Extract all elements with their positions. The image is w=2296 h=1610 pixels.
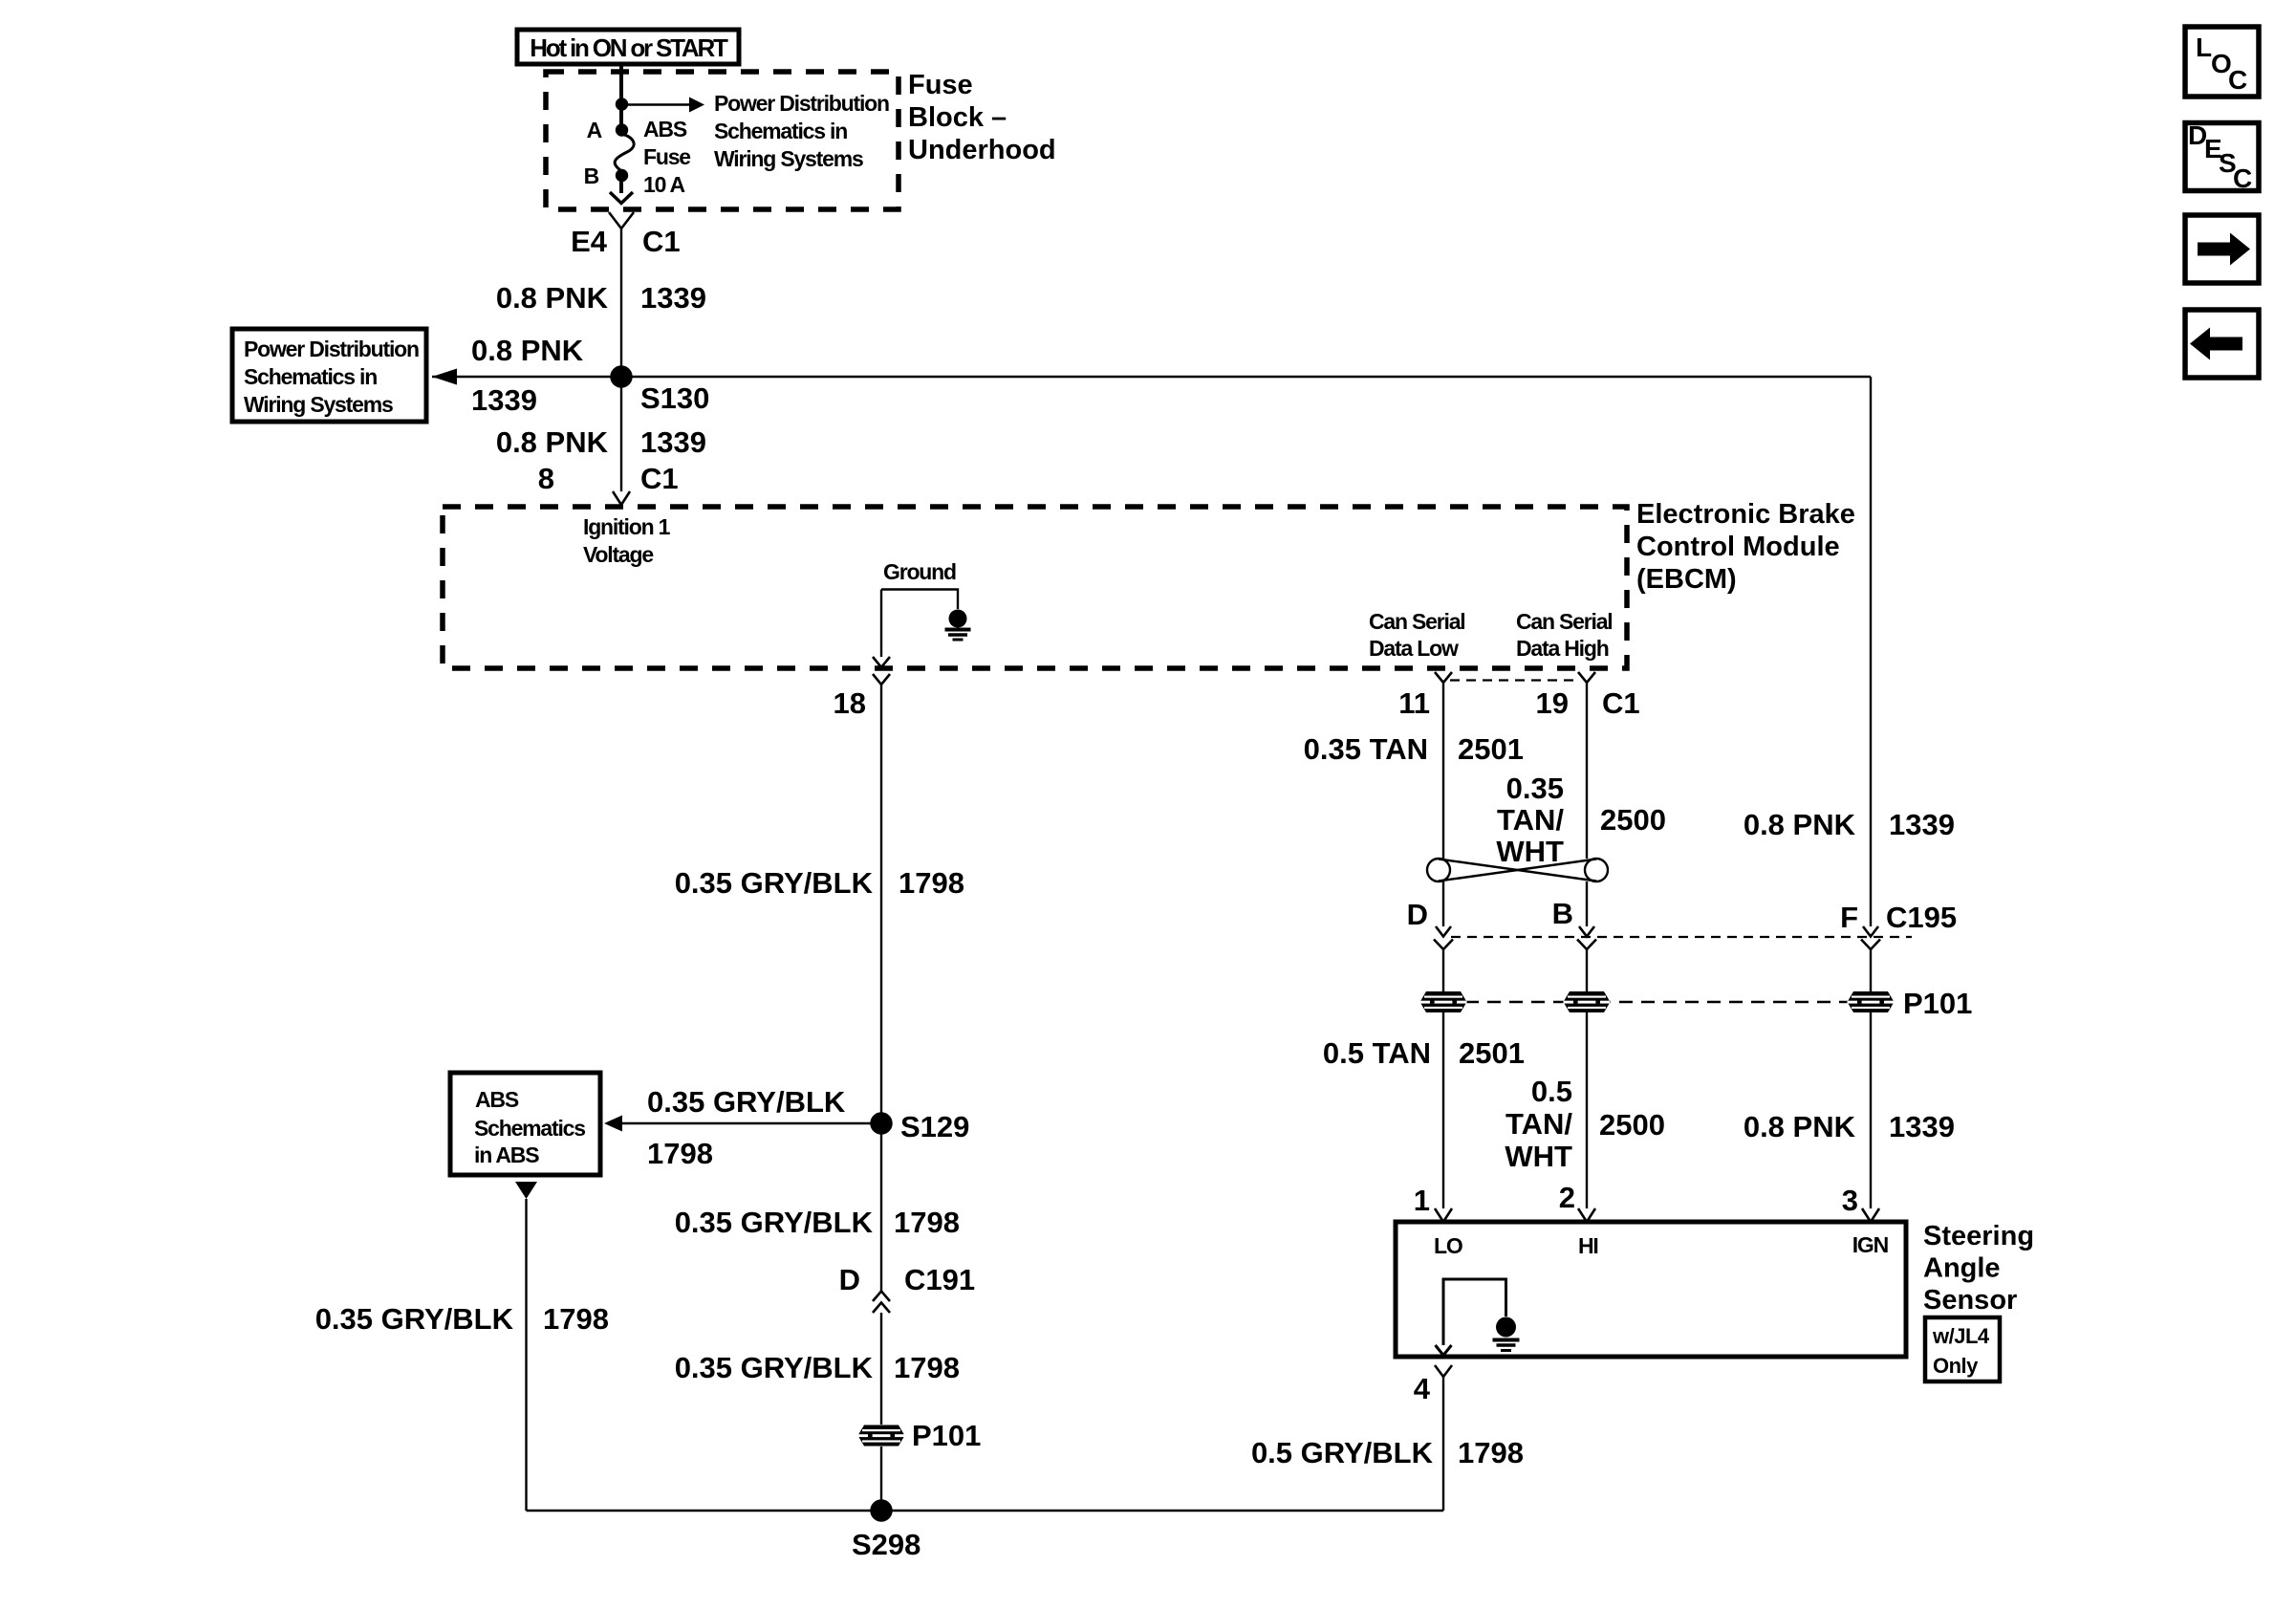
svg-text:0.8 PNK: 0.8 PNK [496,425,609,459]
svg-text:HI: HI [1578,1233,1598,1258]
P101 dashed line [1443,1001,1871,1003]
sensor internal ground symbol [1493,1317,1520,1351]
C195 chevron wire 2 [1577,940,1596,950]
connector chevron pin 8 [613,491,630,505]
wire: pin 18 down to S129 and C191 [880,685,882,1291]
svg-text:0.5 TAN: 0.5 TAN [1323,1036,1431,1070]
svg-text:Block –: Block – [908,102,1007,133]
connector C191 arrow (up) [873,1292,890,1302]
svg-text:Control Module: Control Module [1636,532,1840,562]
pin 19 chevron [1578,672,1595,683]
connector E4/C1 female chevron [609,212,634,228]
svg-text:ABS: ABS [643,117,687,141]
C195 arrow wire 1 [1436,926,1451,937]
fuse terminal dot A [617,125,627,136]
connector C191 chevron (up) [873,1303,890,1314]
svg-text:1798: 1798 [543,1302,609,1336]
grommet P101 (left branch) [858,1425,905,1447]
svg-text:D: D [1407,898,1428,931]
w/JL4 Only box [1925,1317,2000,1382]
svg-text:1798: 1798 [899,866,964,900]
wire: right bus down from corner (0.8 PNK) [1870,377,1872,926]
pin 1 chevron [1435,1208,1452,1222]
svg-text:C191: C191 [904,1263,975,1296]
svg-text:L: L [2196,33,2212,62]
svg-text:1: 1 [1414,1184,1430,1217]
svg-text:LO: LO [1434,1233,1462,1258]
arrow into ABS box [604,1116,622,1132]
svg-text:4: 4 [1414,1372,1431,1405]
svg-text:S130: S130 [640,381,709,415]
svg-text:1798: 1798 [1458,1436,1524,1469]
svg-text:11: 11 [1398,686,1430,720]
nav button back arrow [2185,310,2259,378]
sensor internal arrow to pin 4 [1436,1345,1452,1356]
svg-text:0.35 TAN: 0.35 TAN [1304,732,1428,766]
svg-text:Only: Only [1933,1354,1979,1378]
wire: horizontal bus from arrow to right corner [432,376,1871,378]
C195 arrow wire 3 [1863,926,1878,937]
wire: branch to power distribution reference (arrow right) [622,98,704,113]
wire: pin 4 down [1442,1377,1444,1511]
wire: P101 to S298 [880,1447,882,1511]
connector arrow out of fuse block [610,192,633,204]
svg-text:Can Serial: Can Serial [1369,609,1465,634]
svg-text:E4: E4 [571,225,608,258]
svg-text:S298: S298 [852,1528,921,1561]
junction dot [617,99,627,110]
svg-text:Electronic Brake: Electronic Brake [1636,499,1855,530]
grommet P101 wire 2 [1564,991,1611,1012]
sensor title [1923,1221,2034,1316]
svg-text:S129: S129 [900,1110,969,1143]
EBCM title [1636,499,1855,595]
svg-text:Sensor: Sensor [1923,1285,2017,1316]
pin 3 chevron [1862,1208,1879,1222]
svg-text:TAN/: TAN/ [1505,1107,1572,1141]
wire label 0.35 GRY/BLK 1798 (row 3) [675,1351,960,1384]
wire label 0.5 TAN/WHT [1505,1075,1572,1173]
wire: C195 to P101 wire 2 [1586,949,1588,991]
svg-text:P101: P101 [912,1419,981,1452]
ABS reference text [474,1087,585,1167]
nav button DESC [2185,120,2259,193]
svg-text:Schematics: Schematics [474,1116,585,1141]
bottom bus wire [527,1510,1444,1512]
power feed label box "Hot in ON or START" [517,30,739,64]
pin 4 chevron below sensor box [1435,1365,1452,1377]
wire: E4 down to pin 8 [620,228,622,491]
svg-text:0.8 PNK: 0.8 PNK [471,334,584,367]
EBCM dashed box [443,507,1627,668]
svg-text:B: B [584,163,599,188]
svg-text:F: F [1840,901,1858,934]
svg-text:Fuse: Fuse [908,70,973,100]
svg-text:0.35 GRY/BLK: 0.35 GRY/BLK [675,1206,874,1239]
svg-text:0.35 GRY/BLK: 0.35 GRY/BLK [315,1302,514,1336]
svg-text:TAN/: TAN/ [1497,803,1564,837]
wire label below S130: 0.8 PNK 1339 [496,425,706,459]
svg-text:IGN: IGN [1852,1232,1889,1257]
fuse block title [908,70,1056,165]
svg-text:0.8 PNK: 0.8 PNK [1744,808,1856,841]
svg-text:Wiring Systems: Wiring Systems [244,392,393,417]
svg-text:w/JL4: w/JL4 [1932,1324,1990,1348]
internal ground wire [881,590,958,610]
svg-text:1339: 1339 [640,425,706,459]
power distribution reference text [244,337,419,417]
svg-text:0.5: 0.5 [1531,1075,1572,1108]
wire label 0.35 TAN 2501 [1304,732,1524,766]
wire label 0.35 GRY/BLK 1798 (row 1) [675,866,964,900]
svg-text:3: 3 [1842,1184,1858,1217]
wire: C195 to P101 wire 1 [1442,949,1444,991]
svg-text:C195: C195 [1886,901,1957,934]
fuse block dashed box (Fuse Block - Underhood) [546,72,899,209]
wire: below twisted pair wire 2 [1586,881,1588,926]
svg-text:C: C [2228,65,2247,95]
wire: P101 to pin 3 [1870,1012,1872,1208]
wire label 0.8 PNK 1339 [496,281,706,315]
svg-text:1339: 1339 [471,383,537,417]
wire label 0.5 GRY/BLK 1798 [1251,1436,1524,1469]
svg-text:1339: 1339 [1889,808,1955,841]
svg-text:C1: C1 [1602,686,1640,720]
wire: below twisted pair wire 1 [1442,881,1444,926]
svg-text:Steering: Steering [1923,1221,2034,1251]
grommet P101 wire 3 [1848,991,1895,1012]
svg-text:Hot in ON or START: Hot in ON or START [530,33,728,62]
grommet P101 wire 1 [1420,991,1467,1012]
wire: ground to pin 18 [880,590,882,658]
fuse F5 element squiggle [615,134,634,171]
svg-text:0.5 GRY/BLK: 0.5 GRY/BLK [1251,1436,1434,1469]
arrow into power distribution box [432,369,457,385]
triangle arrow below ABS box [515,1182,537,1199]
svg-text:8: 8 [538,462,554,495]
svg-text:WHT: WHT [1496,835,1564,868]
svg-text:C: C [2233,163,2252,193]
C195 chevron wire 3 [1861,940,1880,950]
splice S130 [612,367,632,387]
svg-text:2500: 2500 [1599,1108,1665,1142]
svg-text:Power Distribution: Power Distribution [244,337,419,361]
svg-text:D: D [839,1263,860,1296]
svg-text:Schematics in: Schematics in [244,364,377,389]
wire label 0.35 GRY/BLK 1798 (row 2) [675,1206,960,1239]
wire: S129 to ABS reference box [622,1122,881,1124]
CAN labels: Can Serial Data Low [1369,609,1465,661]
labels at S130 left [471,334,584,417]
svg-text:0.8 PNK: 0.8 PNK [1744,1110,1856,1143]
svg-text:Schematics in: Schematics in [714,119,847,143]
power distribution reference box [232,329,426,422]
pin 18 female chevron [873,674,890,685]
svg-text:Ground: Ground [883,559,956,584]
svg-text:C1: C1 [640,462,679,495]
steering angle sensor box [1396,1222,1906,1357]
connector C195 dashed line [1451,936,1912,938]
pin 2 chevron [1578,1208,1595,1222]
wire label 0.8 PNK 1339 (lower right) [1744,1110,1955,1143]
svg-text:Angle: Angle [1923,1253,2001,1284]
wire: pin 19 down [1586,683,1588,859]
pin 18 arrow at box edge [873,657,890,667]
CAN labels: Can Serial Data High [1516,609,1613,661]
svg-text:P101: P101 [1903,987,1972,1020]
svg-text:Can Serial: Can Serial [1516,609,1613,634]
splice S298 [872,1501,892,1521]
svg-text:Data Low: Data Low [1369,636,1459,661]
svg-text:1339: 1339 [1889,1110,1955,1143]
svg-text:Wiring Systems: Wiring Systems [714,146,863,171]
C195 chevron wire 1 [1434,940,1453,950]
svg-text:A: A [587,118,602,142]
wire: fuse output [619,180,623,193]
wire: P101 to pin 1 [1442,1012,1444,1208]
svg-text:0.8 PNK: 0.8 PNK [496,281,609,315]
fuse terminal dot B [617,170,627,181]
sensor internal wire [1443,1279,1506,1345]
svg-text:Voltage: Voltage [583,542,653,567]
svg-text:Underhood: Underhood [908,135,1056,165]
svg-text:1339: 1339 [640,281,706,315]
wire: C195 to P101 wire 3 [1870,949,1872,991]
svg-text:0.35: 0.35 [1506,772,1564,805]
svg-text:0.35 GRY/BLK: 0.35 GRY/BLK [647,1085,846,1119]
wire label 0.35 GRY/BLK 1798 (left branch) [315,1302,609,1336]
svg-text:B: B [1552,897,1573,930]
svg-text:2500: 2500 [1600,803,1666,837]
svg-text:10 A: 10 A [643,172,685,197]
svg-text:0.35 GRY/BLK: 0.35 GRY/BLK [675,1351,874,1384]
wire label 0.8 PNK 1339 (upper right) [1744,808,1955,841]
svg-text:WHT: WHT [1505,1140,1572,1173]
svg-text:1798: 1798 [894,1351,960,1384]
wire label 0.5 TAN 2501 [1323,1036,1525,1070]
power distribution note text (top) [714,91,889,171]
nav button forward arrow [2185,215,2259,283]
svg-text:1798: 1798 [894,1206,960,1239]
svg-text:18: 18 [834,686,866,720]
pin 8 function label: Ignition 1 Voltage [583,514,671,567]
svg-text:1798: 1798 [647,1137,713,1170]
svg-text:Fuse: Fuse [643,144,690,169]
C195 arrow wire 2 [1579,926,1594,937]
wire: ABS branch down to bottom bus [525,1199,527,1511]
nav button LOC [2185,27,2259,97]
splice S129 [872,1114,892,1134]
svg-text:ABS: ABS [475,1087,519,1112]
wire: hot feed into fuse block [619,64,623,127]
svg-text:(EBCM): (EBCM) [1636,564,1737,595]
twisted pair symbol [1427,859,1608,881]
svg-text:in ABS: in ABS [474,1142,539,1167]
svg-text:Ignition 1: Ignition 1 [583,514,671,539]
ground symbol (EBCM internal) [945,610,971,641]
svg-text:2501: 2501 [1458,732,1524,766]
wire: C191 to P101 [880,1313,882,1425]
wire: P101 to pin 2 [1586,1012,1588,1208]
svg-text:2501: 2501 [1459,1036,1525,1070]
svg-text:19: 19 [1536,686,1569,720]
svg-text:0.35 GRY/BLK: 0.35 GRY/BLK [675,866,874,900]
wire label 0.35 TAN/WHT [1496,772,1564,868]
svg-text:C1: C1 [642,225,681,258]
ABS schematics reference box [450,1073,600,1175]
pin 11 chevron [1435,672,1452,683]
svg-text:Data High: Data High [1516,636,1609,661]
fuse name and rating: ABS Fuse 10 A [643,117,690,197]
wire: pin 11 down [1442,683,1444,859]
svg-text:Power Distribution: Power Distribution [714,91,889,116]
svg-text:2: 2 [1559,1181,1575,1214]
connector C1 dashed line between pins 11 and 19 [1450,679,1579,681]
